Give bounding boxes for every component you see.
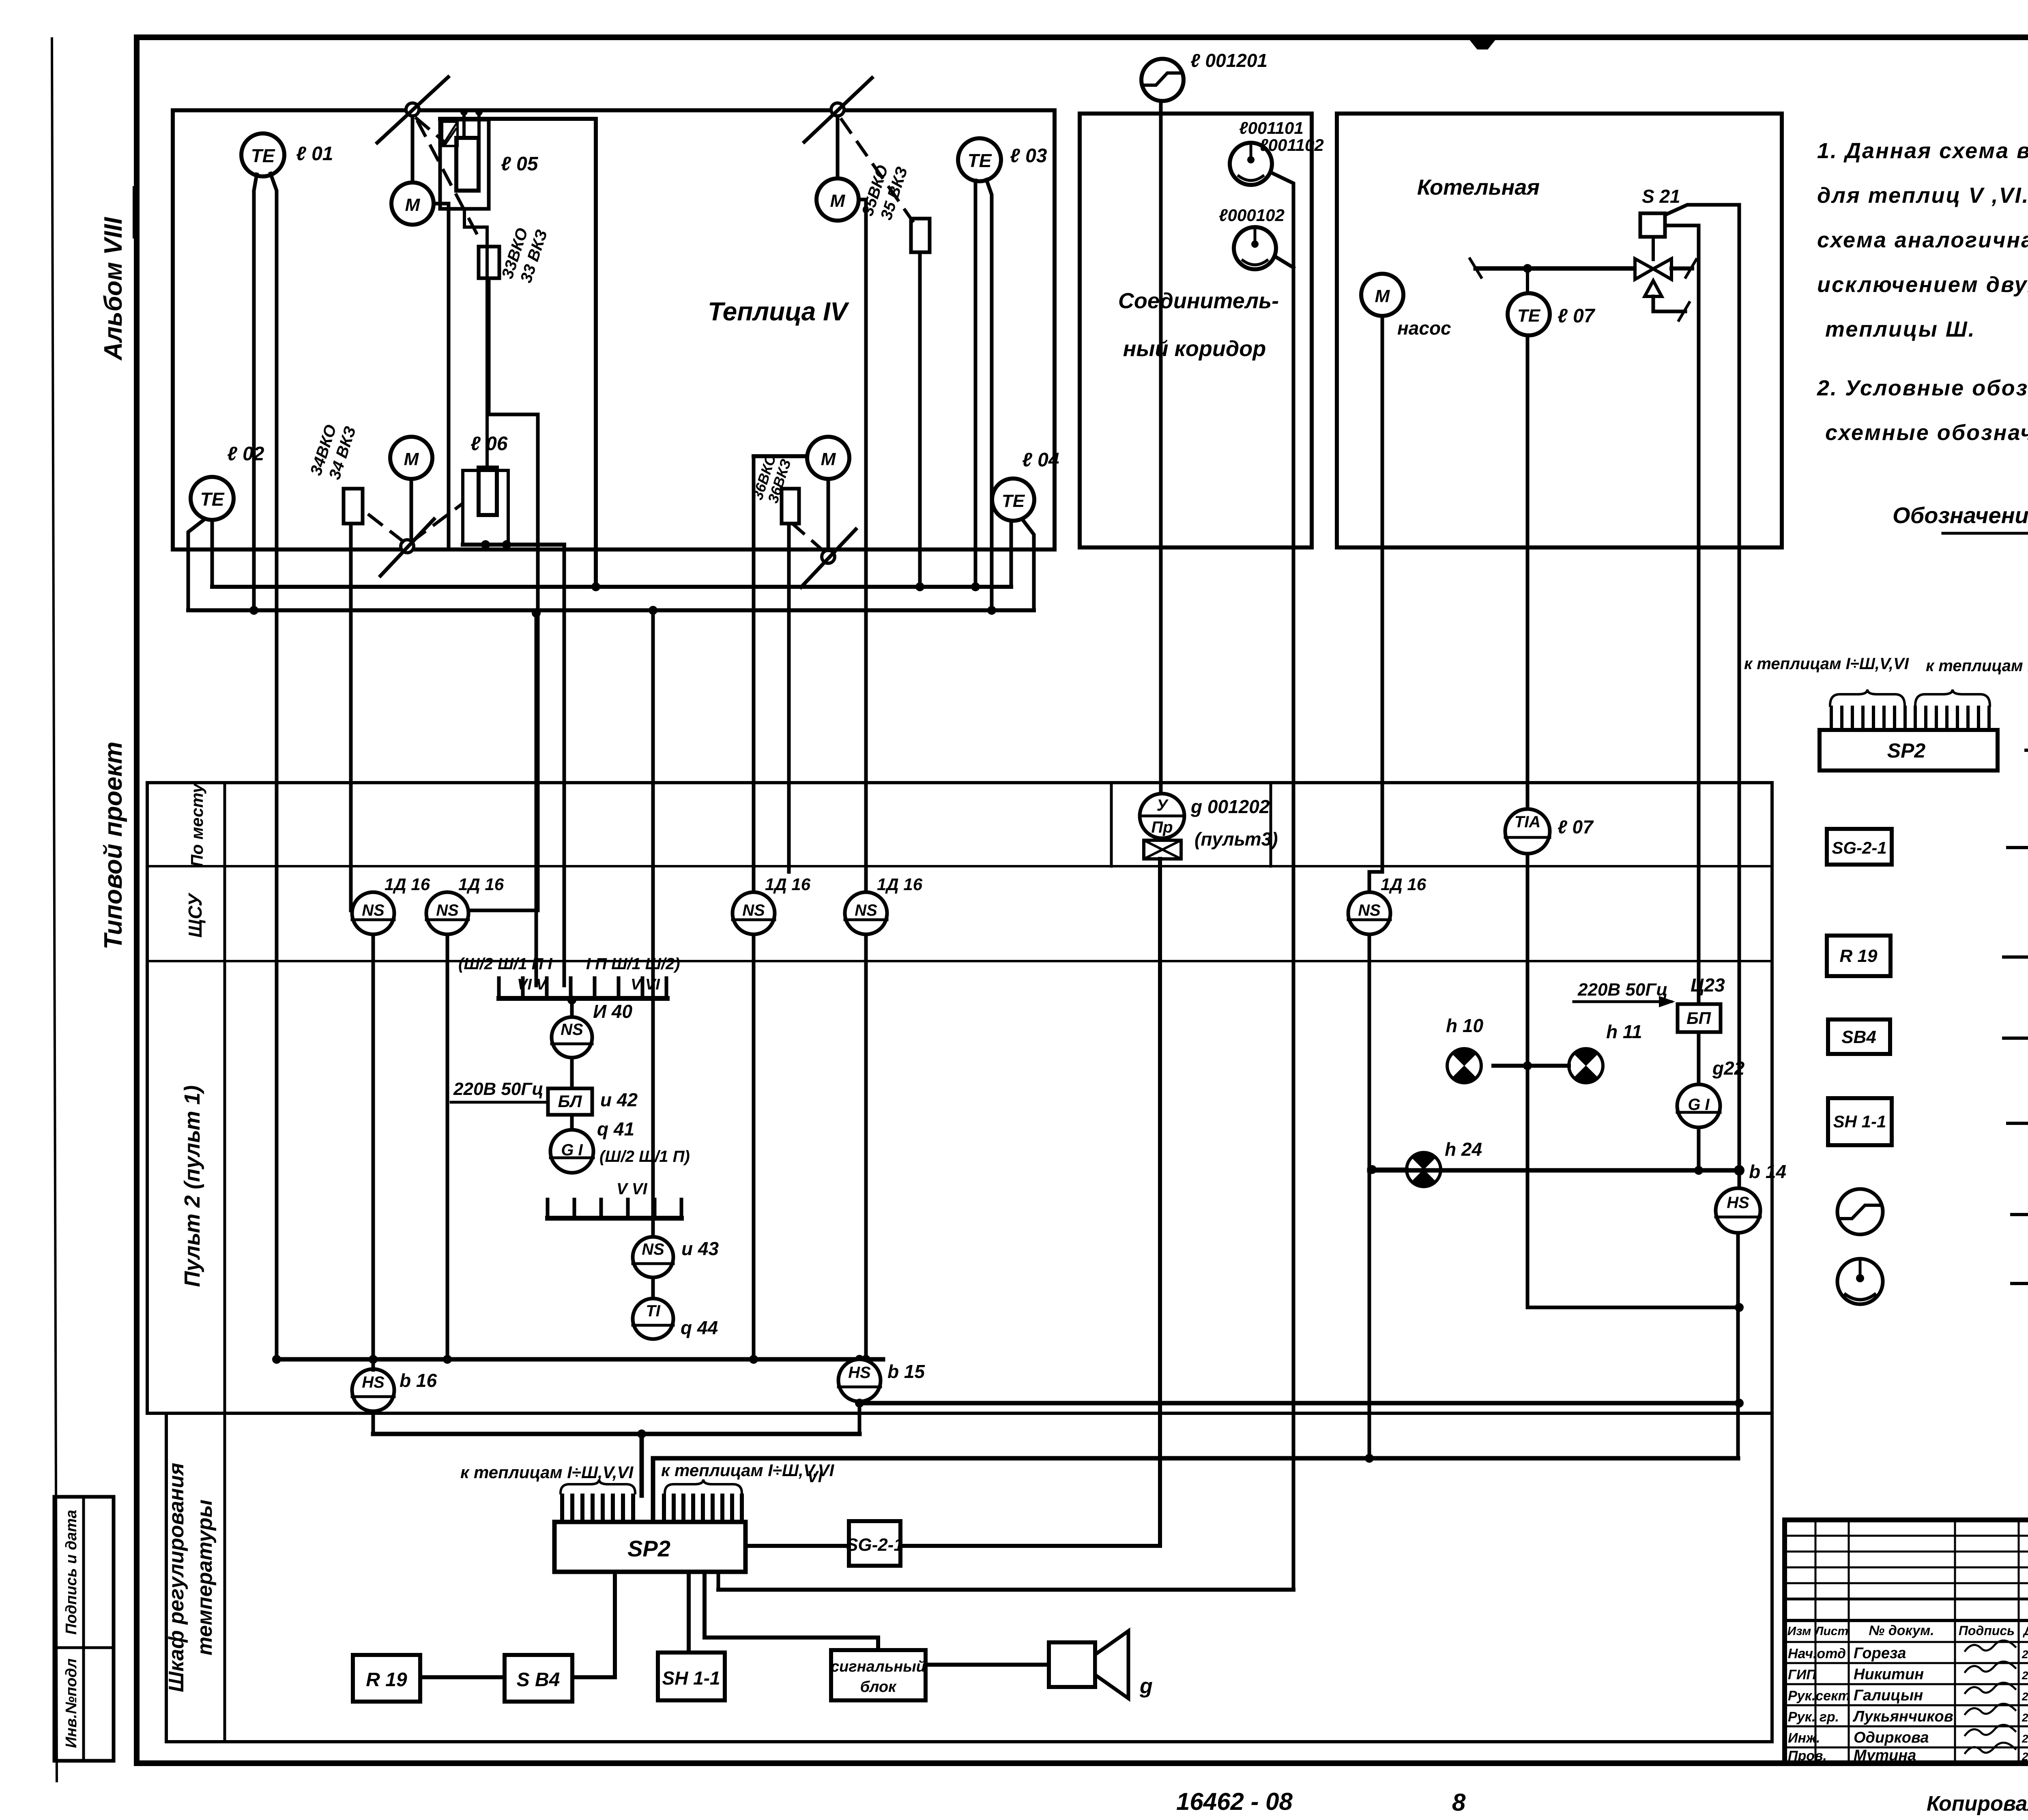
comb2 feed wire [651,610,655,1218]
multiplexer comb2 [548,1200,681,1218]
label к теплицам (right) [661,1461,835,1480]
row label: ЩСУ [185,892,206,938]
title: revision header [1787,1623,2028,1638]
label h24 [1445,1139,1482,1160]
svg-text:ℓ 01: ℓ 01 [296,143,333,165]
bus to SP2 (y3536) [373,1429,859,1438]
svg-text:h 24: h 24 [1445,1139,1482,1160]
svg-text:Альбом VIII: Альбом VIII [99,217,127,361]
starter NS4 + label 1Д16 [845,875,923,934]
inventory strip box bottom-left [54,1497,114,1761]
legend block SG-2-1 [1827,829,1892,865]
footer: 16462-08 [1176,1788,1293,1815]
dashed link window2 to ВК34 [365,512,403,541]
label насос [1397,318,1451,339]
window actuator symbol 2 (lower) [380,519,434,576]
svg-text:NS: NS [742,901,765,919]
svg-text:Котельная: Котельная [1417,175,1540,200]
l06 bottom bus [463,540,564,549]
label: Теплица IV [708,297,850,326]
sensor TE l03 [958,138,1001,181]
svg-text:ℓ 05: ℓ 05 [501,153,539,175]
legend block SP2 [1820,730,1998,770]
row separator По месту/ЩСУ [147,865,1772,867]
legend dash photo [2012,1282,2028,1285]
svg-text:Мутина: Мутина [1854,1747,1916,1764]
loudspeaker [1049,1631,1128,1698]
connecting corridor box [1080,114,1312,547]
svg-text:ℓ001101: ℓ001101 [1239,118,1304,137]
wire R19 to SB4 [420,1675,505,1679]
label 220В 50Гц (БП) [1574,980,1675,1007]
window actuator symbol 1 (фрамуга) [377,77,448,182]
roman numerals V VI (comb2) [617,1180,647,1198]
svg-text:29.11.78: 29.11.78 [2022,1648,2028,1661]
svg-text:Копировал: Копировал [1927,1792,2028,1816]
svg-text:M: M [830,191,846,211]
svg-text:SP2: SP2 [1887,739,1926,762]
wire GI g22 down to b14 bus [1694,1127,1703,1175]
svg-text:насос: насос [1397,318,1451,339]
label l03 [1010,145,1047,167]
label 36ВКО 36ВКЗ (rotated) [749,452,794,505]
svg-text:b 14: b 14 [1749,1161,1786,1182]
paper trim line (left edge) [52,39,57,1781]
svg-text:1Д 16: 1Д 16 [765,875,811,894]
svg-text:27.10.78: 27.10.78 [2022,1750,2028,1763]
svg-text:Нач.отд: Нач.отд [1788,1646,1846,1661]
project label (rotated): Типовой проект [99,742,127,950]
NS4 wire down [861,934,870,1364]
dashed link window2 to l06 [412,504,462,541]
svg-text:TI: TI [646,1302,660,1320]
pump motor M (насос) [1361,274,1403,316]
svg-text:M: M [821,449,836,469]
label И 42 [600,1089,638,1110]
svg-text:теплицы Ш.: теплицы Ш. [1825,317,1976,341]
svg-text:SH 1-1: SH 1-1 [662,1668,720,1689]
label h10 [1446,1015,1483,1036]
instrument У/Пр (пульт 3) [1140,794,1184,838]
label q 41 [597,1118,634,1140]
label l001101 l001102 [1239,118,1324,155]
svg-text:Обозначения, принятые в схемах: Обозначения, принятые в схемах [1893,502,2028,528]
svg-text:2. Условные обозначения вып: 2. Условные обозначения выполнены по ОСТ… [1817,376,2028,400]
svg-text:S B4: S B4 [517,1669,560,1691]
motor M3 [816,178,859,221]
wire tap bus_b to comb [532,609,541,985]
label l02 [227,443,264,465]
label И 43 [681,1238,719,1259]
power block БП [1678,1004,1721,1032]
M4 top bus [754,454,807,458]
TE l07 wire to TIA riser [1526,335,1530,809]
dashed link window1 to limit switch 33 [418,122,482,243]
svg-text:V VI: V VI [617,1180,647,1198]
legend block SB4 [1828,1019,1890,1054]
starter NS И40 [552,1017,592,1058]
svg-text:для теплиц V ,VI. Для тепл: для теплиц V ,VI. Для теплиц I , П и отд… [1817,183,2028,208]
svg-text:ТIА: ТIА [1515,813,1540,831]
h24 stub wire [1368,1165,1407,1174]
limit switch ВК34 [344,489,363,524]
svg-text:Лукьянчиков: Лукьянчиков [1852,1708,1953,1725]
SP2 connector teeth [562,1496,742,1522]
window actuator symbol 4 (lower right) [801,529,856,587]
photo sensor l001101/l001102 [1230,143,1272,185]
TE l04 wires down [1011,519,1034,610]
svg-text:b 15: b 15 [887,1361,925,1382]
motor M1 [391,182,434,225]
legend brace left [1830,689,1905,706]
row label: Шкаф регулирования температуры [165,1463,217,1692]
legend dash SG [2008,846,2028,849]
svg-text:NS: NS [362,901,385,919]
strip label: Инв.№подл [63,1659,80,1748]
label 220В 50Гц [451,1079,548,1102]
svg-text:1Д 16: 1Д 16 [385,875,430,894]
panel rows box [147,783,1772,1413]
bus b15 to right (y3460) [859,1399,1744,1408]
svg-text:И 40: И 40 [593,1001,632,1022]
l05 wires to box top [460,108,487,468]
lamp h10 [1447,1048,1481,1083]
row separator ЩСУ/Пульт2 [147,960,1772,962]
cabinet box (Шкаф) [166,1413,1772,1742]
svg-text:NS: NS [855,901,877,919]
svg-text:Шкаф регулирования: Шкаф регулирования [165,1463,188,1692]
svg-text:NS: NS [642,1241,664,1258]
label g (loudspeaker) [1139,1674,1153,1698]
svg-text:SB4: SB4 [1841,1027,1876,1047]
label b 16 [400,1370,437,1391]
svg-text:Подпись и дата: Подпись и дата [63,1510,80,1635]
limit switch ВК33 [479,247,499,278]
legend title: Обозначения, принятые в схемах [1893,502,2028,533]
multiplexer comb И40 [499,978,667,998]
M3 riser down to NS4 [859,200,866,893]
svg-text:1Д 16: 1Д 16 [877,875,923,894]
svg-text:Дата: Дата [2022,1625,2028,1638]
main regulator block SP2 [554,1522,745,1572]
svg-text:ГИП: ГИП [1788,1667,1817,1683]
NS5 wire down to lamp bus [1365,934,1374,1463]
footer: Копировал [1927,1792,2028,1816]
svg-text:схемные обозначения - соглас: схемные обозначения - согласно документа… [1825,421,2028,445]
limit switch ВК35 [911,219,930,252]
row label column divider [223,783,226,1742]
top centering mark [1467,37,1497,49]
svg-text:и 43: и 43 [681,1238,719,1259]
switch HS b16 [352,1369,394,1411]
M1 riser down to box bottom [447,204,451,549]
NS3 wire down [749,934,758,1364]
svg-text:№ докум.: № докум. [1869,1623,1934,1638]
valve outlet right [1671,260,1696,277]
svg-text:16462 - 08: 16462 - 08 [1176,1788,1293,1815]
svg-text:ℓ 04: ℓ 04 [1022,449,1059,471]
wire SP2 to SG-2-1 [745,1544,849,1548]
wire SP2 to signal block [705,1572,878,1650]
svg-text:G I: G I [561,1141,583,1159]
svg-text:БП: БП [1686,1009,1711,1028]
svg-text:Инж.: Инж. [1788,1730,1820,1746]
svg-text:g 001202: g 001202 [1190,796,1270,817]
M4 wire to window4 pivot [827,479,830,550]
legend SP2 teeth [1831,707,1989,730]
temperature bus b (horizontal) [212,585,1011,589]
legend header note 2 [1817,376,2028,445]
svg-text:1. Данная схема выполнена д: 1. Данная схема выполнена для теплицы IV… [1817,139,2028,163]
svg-text:БЛ: БЛ [558,1092,582,1111]
legend dash SP2 [2026,749,2028,752]
wire HS b16 down [372,1359,375,1434]
ВК36 wire down to NS3 [752,456,756,893]
indicator TI q44 [633,1298,673,1339]
label 33ВКО 33ВКЗ (rotated) [498,226,551,285]
resistor l06 enclosure [463,470,508,545]
power block SH1-1 [658,1653,725,1700]
bus SP2-photo (y3920) [718,1588,1293,1592]
potentiometer l05 enclosure [440,119,600,591]
wire SP2 to SH1-1 [687,1572,691,1653]
svg-text:Изм: Изм [1787,1625,1811,1638]
svg-text:и 42: и 42 [600,1089,638,1110]
signal block [831,1650,926,1700]
wire signal block to loudspeaker [926,1663,1049,1667]
svg-text:Одиркова: Одиркова [1854,1729,1929,1746]
svg-text:HS: HS [848,1364,871,1382]
label l001201 [1190,50,1267,71]
legend header note 1 [1817,139,2028,341]
recorder symbol under У/Пр [1144,840,1181,859]
wire ВК36 bottom [787,524,791,872]
roman numerals VI V [517,976,660,993]
svg-text:SP2: SP2 [627,1536,670,1561]
label g22 [1712,1058,1745,1079]
title block grid [1785,1520,2028,1763]
row label: По месту [187,783,206,867]
bus2 SP2 to b14 (y3596) [653,1458,1738,1522]
svg-text:G I: G I [1688,1096,1710,1114]
svg-text:R 19: R 19 [1840,946,1878,966]
pipe line [1470,259,1635,277]
power block БЛ [548,1088,592,1115]
svg-text:220В 50Гц: 220В 50Гц [1577,980,1668,1000]
svg-text:SH 1-1: SH 1-1 [1833,1112,1886,1131]
dashed link window3 to ВК35 [842,120,913,221]
svg-text:Пров.: Пров. [1788,1748,1827,1764]
label l05 [501,153,539,175]
svg-text:NS: NS [1358,901,1381,919]
ВК35 wire down to bus [915,252,924,591]
svg-text:исключением двух электроприв: исключением двух электроприводов фрамуг … [1817,273,2028,297]
comb2 stub [651,1218,655,1237]
svg-text:TE: TE [251,145,275,166]
legend brace right [1915,689,1990,706]
M1 wire to riser [434,202,449,206]
label 35ВКО 35ВКЗ (rotated) [859,163,911,222]
indicator GI q41 [550,1130,593,1173]
TE l01 wires down [249,174,277,1359]
resistor l06 [479,468,497,515]
setpoint block SB4 [505,1655,572,1702]
label l07 [1558,305,1596,327]
svg-text:h 10: h 10 [1446,1015,1483,1036]
label l07 (TIA) [1558,816,1594,837]
svg-text:220В 50Гц: 220В 50Гц [453,1079,544,1099]
svg-text:26.10.78: 26.10.78 [2022,1732,2028,1745]
svg-text:ℓ 06: ℓ 06 [470,433,508,455]
dashed link window1 to hatch [417,118,445,143]
sensor TE l01 [241,133,284,176]
valve actuator S21 [1640,213,1665,237]
motor M4 [807,437,849,479]
svg-text:У: У [1156,796,1169,814]
starter NS5 + label 1Д16 [1348,875,1426,934]
comb1 stub to NS [567,996,576,1018]
svg-text:HS: HS [1727,1194,1749,1212]
svg-text:Теплица IV: Теплица IV [708,297,850,326]
motor M2 [390,437,432,479]
svg-text:1Д 16: 1Д 16 [458,875,504,894]
wire S21 to power block БП [1665,225,1699,1004]
row label: Пульт 2 (пульт 1) [180,1085,204,1287]
label l01 [296,143,333,165]
sensor TE l02 [191,477,234,520]
svg-text:температуры: температуры [193,1500,217,1655]
svg-text:Пульт 2 (пульт 1): Пульт 2 (пульт 1) [180,1085,204,1287]
brace left [561,1479,635,1493]
svg-text:Типовой проект: Типовой проект [99,742,127,950]
legend block R19 [1827,936,1891,976]
svg-text:8: 8 [1452,1789,1466,1816]
svg-text:27.11.78: 27.11.78 [2022,1690,2028,1703]
brace right [665,1479,742,1493]
svg-text:(Ш/2 Ш/1 П): (Ш/2 Ш/1 П) [599,1148,690,1165]
legend dash SH [2008,1122,2028,1125]
svg-text:q 41: q 41 [597,1118,634,1140]
ВК34 wire down to NS1 [351,524,360,910]
svg-text:ℓ000102: ℓ000102 [1219,206,1285,225]
svg-text:SG-2-1: SG-2-1 [846,1535,904,1555]
wire HS b14 down to bus2 [1736,1233,1740,1458]
svg-text:к теплицам I÷Ш,V,VI: к теплицам I÷Ш,V,VI [1744,655,1909,673]
M2 wire to window2 pivot [410,479,413,540]
switch HS b15 [838,1359,881,1401]
svg-text:V VI: V VI [631,976,660,993]
svg-text:ℓ 07: ℓ 07 [1558,816,1594,837]
label: Котельная [1417,175,1540,200]
label l04 [1022,449,1059,471]
svg-text:схема аналогична с заменой: схема аналогична с заменой пульта 2 на п… [1817,228,2028,252]
label И 40 [593,1001,632,1022]
NS1 wire down [369,934,378,1364]
wire HS b15 down [855,1399,864,1434]
greenhouse IV box (Теплица IV) [173,110,1055,549]
photo sensor l000102 [1234,227,1276,269]
wire NS И43 to TI [651,1277,655,1298]
legend combs labels [1744,655,2028,675]
svg-text:к теплицам I÷Ш,V,VI: к теплицам I÷Ш,V,VI [460,1463,634,1482]
legend block SH1-1 [1828,1098,1892,1145]
lamp h11 [1569,1048,1603,1083]
svg-text:ℓ001102: ℓ001102 [1259,135,1324,155]
svg-text:TE: TE [200,489,225,510]
svg-text:TE: TE [968,150,992,171]
svg-text:ℓ 03: ℓ 03 [1010,145,1047,167]
svg-text:Гореза: Гореза [1854,1645,1906,1662]
wire NS И40 to БЛ [570,1058,574,1088]
TE l02 wires down [188,519,212,610]
wire l06-bus down to console comb [563,545,566,985]
TIA wire down through lamps [1527,854,1744,1312]
sensor TE l04 [992,479,1034,521]
valve outlet bottom [1653,296,1689,320]
label (Ш/2 Ш/1 П) [599,1148,690,1165]
label (пульт3) [1194,828,1278,850]
label l000102 [1219,206,1285,225]
wind block SG-2-1 [846,1521,904,1566]
footer: sheet 8 [1452,1789,1466,1816]
switch HS b14 [1716,1170,1760,1233]
svg-text:Подпись: Подпись [1959,1623,2015,1638]
label l06 [470,433,508,455]
svg-text:I П Ш/1 Ш/2): I П Ш/1 Ш/2) [586,955,680,973]
svg-text:сигнальный: сигнальный [831,1658,926,1675]
SP2 feed riser [640,1434,644,1496]
album label (rotated): Альбом VIII [99,187,134,361]
wire h10-h11 [1493,1061,1569,1070]
svg-text:Пр: Пр [1151,818,1173,836]
temperature bus c (horizontal) [188,606,1034,615]
node b14 [1734,1161,1786,1182]
svg-text:к теплицам I÷Ш,V,VI: к теплицам I÷Ш,V,VI [1926,657,2028,675]
window actuator symbol 3 (upper right) [804,78,872,178]
svg-text:к теплицам I÷Ш,V,VI: к теплицам I÷Ш,V,VI [661,1461,835,1480]
starter NS2 + label 1Д16 [426,875,504,934]
svg-text:ℓ 02: ℓ 02 [227,443,264,465]
title: staff rows [1788,1640,2028,1764]
svg-text:S 21: S 21 [1642,186,1680,207]
svg-text:ЩСУ: ЩСУ [185,892,206,938]
svg-text:(пульт3): (пульт3) [1194,828,1278,850]
svg-text:Соединитель-: Соединитель- [1118,289,1279,313]
legend anemometer symbol [1837,1189,1883,1234]
svg-text:M: M [405,195,421,215]
svg-text:29.11.78: 29.11.78 [2022,1669,2028,1682]
label g 001202 [1190,796,1270,817]
wire БП to GI g22 [1697,1032,1701,1084]
svg-text:HS: HS [362,1374,385,1391]
starter NS3 + label 1Д16 [733,875,811,934]
regulator R19 [353,1655,420,1702]
label к теплицам (left) [460,1463,634,1482]
resistor l05 [456,138,479,191]
label 34ВКО 34ВКЗ (rotated) [307,423,360,482]
strip label: Подпись и дата [63,1510,80,1635]
svg-text:SG-2-1: SG-2-1 [1832,838,1886,857]
legend dash SB4 [2004,1037,2028,1040]
label: Соединительный коридор [1118,289,1279,361]
label S21 [1642,186,1680,207]
roman numeral header comb1 [458,955,680,973]
svg-text:ный коридор: ный коридор [1123,337,1266,361]
wire S21 upper to b14 riser [1665,205,1739,1170]
boiler house box (Котельная) [1337,114,1782,547]
pump wire down to NS5 [1369,316,1382,893]
svg-text:Рук.сект: Рук.сект [1788,1688,1850,1704]
